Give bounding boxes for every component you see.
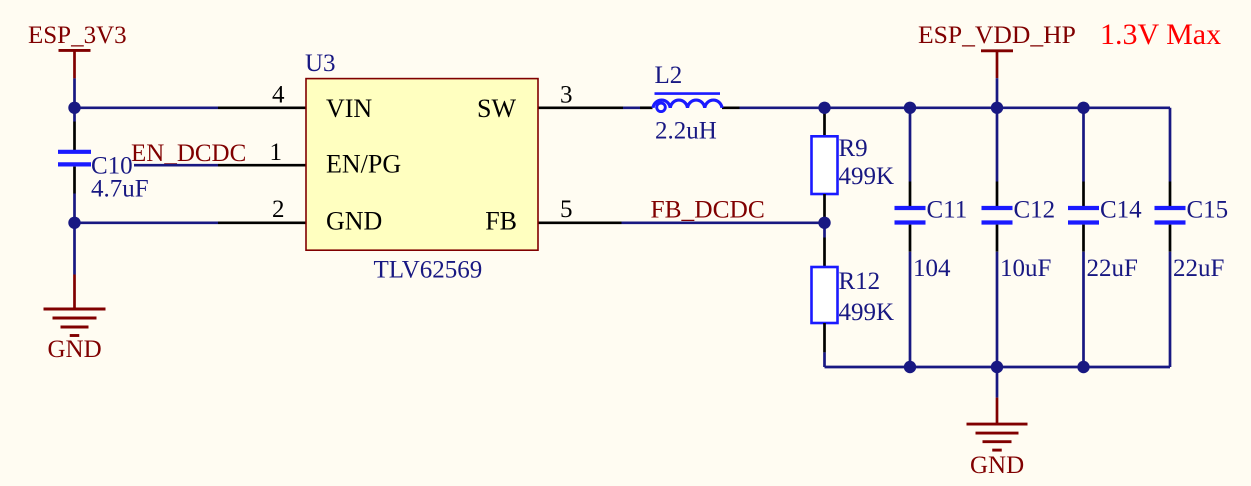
svg-text:R12: R12 [839, 268, 881, 295]
svg-text:2: 2 [272, 196, 285, 223]
svg-text:C15: C15 [1187, 196, 1229, 223]
svg-text:VIN: VIN [326, 94, 372, 123]
svg-text:GND: GND [48, 336, 102, 363]
svg-text:104: 104 [913, 255, 951, 282]
svg-text:ESP_3V3: ESP_3V3 [28, 22, 127, 49]
svg-text:C11: C11 [927, 196, 968, 223]
svg-text:C14: C14 [1100, 196, 1142, 223]
svg-text:4.7uF: 4.7uF [91, 176, 149, 203]
svg-text:1: 1 [270, 139, 283, 166]
svg-text:FB: FB [485, 206, 517, 235]
svg-text:TLV62569: TLV62569 [374, 257, 483, 284]
svg-text:EN_DCDC: EN_DCDC [131, 140, 246, 167]
svg-text:10uF: 10uF [1000, 255, 1051, 282]
svg-text:499K: 499K [839, 163, 895, 190]
svg-text:R9: R9 [839, 135, 868, 162]
svg-text:GND: GND [970, 452, 1024, 479]
svg-text:EN/PG: EN/PG [326, 149, 401, 178]
svg-text:22uF: 22uF [1173, 255, 1224, 282]
svg-text:499K: 499K [839, 299, 895, 326]
svg-text:22uF: 22uF [1087, 255, 1138, 282]
svg-text:U3: U3 [305, 50, 336, 77]
svg-text:FB_DCDC: FB_DCDC [651, 196, 765, 224]
svg-text:C12: C12 [1014, 196, 1056, 223]
svg-text:L2: L2 [655, 62, 683, 89]
svg-text:2.2uH: 2.2uH [655, 118, 717, 145]
svg-text:SW: SW [477, 94, 516, 123]
svg-text:1.3V Max: 1.3V Max [1100, 18, 1221, 51]
svg-text:ESP_VDD_HP: ESP_VDD_HP [918, 20, 1076, 49]
svg-text:5: 5 [560, 196, 573, 223]
svg-text:GND: GND [326, 206, 382, 235]
svg-text:4: 4 [272, 81, 285, 108]
svg-text:3: 3 [560, 81, 573, 108]
